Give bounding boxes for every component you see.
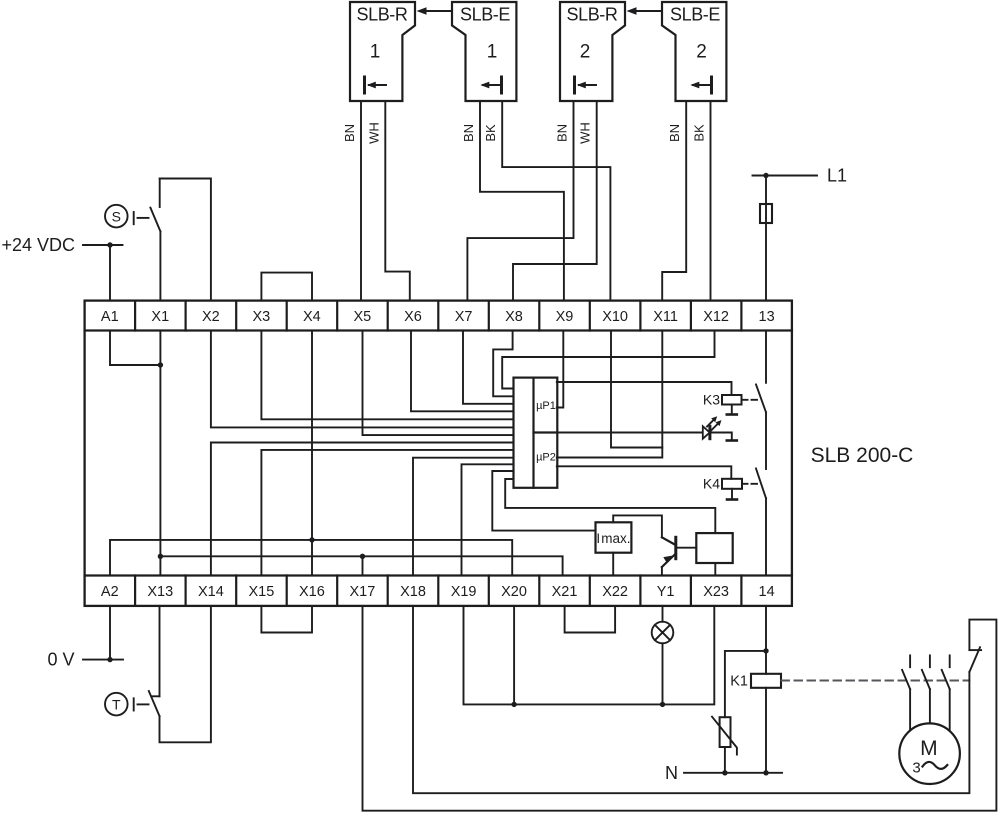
wire X9 to uP1 right pin (557, 331, 564, 408)
svg-text:X6: X6 (404, 309, 422, 325)
svg-text:X20: X20 (501, 584, 527, 600)
K4 coil common terminator (727, 489, 737, 500)
wire tap to varistor (725, 651, 766, 717)
output driver box (696, 533, 732, 563)
wire BN of SLB-R 2 to X7 (467, 101, 573, 301)
svg-text:N: N (665, 763, 678, 783)
svg-text:K4: K4 (703, 476, 720, 492)
node 0 V (47, 650, 123, 670)
svg-text:WH: WH (366, 122, 381, 144)
light exit symbol of SLB-E 1 (480, 77, 501, 93)
switch S actuator (105, 205, 149, 228)
wire L1 to fuse (765, 176, 767, 205)
wire uP2 to relay K4 coil (557, 466, 732, 479)
motor phase wires (910, 689, 950, 730)
svg-text:BN: BN (342, 124, 357, 142)
wire A2 to 0V (109, 606, 111, 660)
transistor Q1 (662, 537, 676, 567)
main block SLB 200-C outline (85, 301, 792, 606)
wire X19 to uP (462, 464, 514, 575)
contact K3 (13 to K4) (756, 331, 766, 413)
wire X14 to uP (211, 443, 514, 576)
svg-text:2: 2 (580, 42, 591, 63)
junction X4/A2 rail (309, 537, 314, 542)
K1 mechanical linkage (dashed) (782, 680, 970, 682)
svg-text:SLB-E: SLB-E (670, 5, 720, 25)
svg-text:X15: X15 (248, 584, 274, 600)
feedback loop X17 (outer) (363, 606, 997, 811)
wire X4 to X16 (311, 331, 313, 576)
svg-text:X2: X2 (202, 309, 220, 325)
junction X20/lamp rail (511, 702, 516, 707)
svg-text:X23: X23 (703, 584, 729, 600)
emitter SLB-E 1 (452, 2, 516, 101)
svg-text:X12: X12 (703, 309, 729, 325)
node L1 (753, 166, 848, 186)
K3 linkage dashes (743, 399, 757, 401)
svg-text:X11: X11 (653, 309, 678, 325)
varistor R1 (712, 717, 737, 755)
K4 linkage dashes (743, 483, 757, 485)
jumper X3-X4 above strip (261, 273, 312, 301)
svg-text:SLB-R: SLB-R (566, 5, 617, 25)
svg-text:BK: BK (483, 124, 498, 142)
LED wire from uP (557, 432, 703, 434)
wire A2 to X20 internal rail (110, 540, 512, 576)
auxiliary contact K1 (NC) in feedback (969, 647, 981, 672)
svg-text:0 V: 0 V (47, 650, 74, 670)
wire X1 down to X13/X21 rail (159, 331, 161, 557)
wire X3 to uP (261, 331, 513, 420)
contactor K1 contact phase 3 (942, 655, 950, 689)
svg-text:X19: X19 (451, 584, 477, 600)
motor M 3~ (899, 723, 960, 784)
wire fuse to terminal 13 (765, 223, 767, 301)
contactor K1 contact phase 2 (922, 655, 930, 689)
switch T actuator (105, 693, 149, 716)
svg-text:X21: X21 (552, 584, 578, 600)
junction varistor tap (763, 648, 768, 653)
wire X20 stub (513, 606, 515, 705)
receiver SLB-R 1 (350, 2, 415, 101)
wire BN of SLB-R 1 to X5 (342, 101, 361, 301)
svg-text:X17: X17 (349, 584, 375, 600)
svg-text:X14: X14 (198, 584, 224, 600)
light entry symbol of SLB-R 1 (365, 77, 387, 93)
svg-text:14: 14 (759, 584, 775, 600)
svg-text:WH: WH (578, 122, 593, 144)
wire uP to Imax left (492, 471, 595, 531)
junction A1/X1 (158, 362, 163, 367)
wire K1 coil to N (765, 688, 767, 773)
beam arrow from SLB-E 2 to SLB-R 2 (627, 7, 662, 15)
svg-text:X13: X13 (147, 584, 173, 600)
K3 coil common terminator (727, 405, 737, 415)
wire WH of SLB-R 2 to X8 (513, 101, 597, 301)
jumper X15-X16 (261, 606, 312, 633)
svg-text:X7: X7 (455, 309, 473, 325)
wire driver box to X23 (714, 563, 716, 576)
svg-text:2: 2 (696, 42, 707, 63)
wire uP1 to relay K3 coil (557, 382, 732, 395)
svg-text:T: T (112, 696, 121, 712)
svg-text:3: 3 (912, 760, 920, 777)
svg-text:I max.: I max. (596, 531, 630, 546)
svg-text:K3: K3 (703, 392, 720, 408)
wire X15 to uP (261, 450, 513, 576)
emitter SLB-E 2 (662, 2, 726, 101)
svg-text:X1: X1 (151, 309, 169, 325)
svg-text:M: M (920, 737, 938, 760)
contactor K1 contact phase 1 (902, 655, 910, 689)
svg-text:S: S (112, 208, 121, 224)
contact K4 (to 14) (756, 412, 766, 575)
wire BK of SLB-E 2 to X12 (692, 101, 711, 301)
svg-text:µP2: µP2 (536, 452, 556, 464)
wire varistor to N (724, 747, 726, 773)
receiver SLB-R 2 (560, 2, 625, 101)
wire +24VDC to A1 (109, 245, 111, 301)
wire X5 to uP (363, 331, 514, 436)
wire A1 to X1 internal (110, 331, 160, 366)
svg-text:SLB 200-C: SLB 200-C (811, 444, 914, 467)
svg-text:SLB-R: SLB-R (356, 5, 407, 25)
node N (665, 763, 782, 783)
wire X2 to uP (211, 331, 514, 428)
rail X1/X13/X17 to X21 (160, 556, 562, 575)
top terminal strip (85, 301, 792, 331)
svg-text:A1: A1 (101, 309, 119, 325)
fuse F1 (760, 204, 772, 223)
indicator lamp H1 at Y1 (652, 606, 674, 705)
bottom terminal strip (85, 576, 792, 606)
switch T contact (NC) X13 to X14 (149, 606, 211, 742)
svg-text:BN: BN (555, 124, 570, 142)
wire transistor base to driver box (676, 547, 697, 549)
svg-text:X10: X10 (602, 309, 628, 325)
wire X11 to uP2 right pin (557, 331, 663, 458)
svg-text:X4: X4 (303, 309, 321, 325)
svg-text:+24 VDC: +24 VDC (1, 235, 75, 255)
beam arrow from SLB-E 1 to SLB-R 1 (417, 7, 452, 15)
wire X10 to X11 rail (611, 331, 662, 448)
svg-text:SLB-E: SLB-E (460, 5, 510, 25)
wire X18 to uP (413, 458, 514, 576)
svg-text:X18: X18 (400, 584, 426, 600)
svg-text:L1: L1 (827, 166, 847, 186)
wire BK of SLB-E 1 to X10 (483, 101, 610, 301)
wire S loop to X2 (160, 179, 211, 301)
wire 14 to K1 coil (765, 606, 767, 674)
svg-text:BK: BK (692, 124, 707, 142)
junction lamp/rail (660, 702, 665, 707)
svg-text:Y1: Y1 (657, 584, 675, 600)
svg-text:1: 1 (370, 42, 381, 63)
wire Imax top to transistor collector (613, 515, 662, 537)
svg-text:X22: X22 (602, 584, 628, 600)
svg-text:A2: A2 (101, 584, 119, 600)
node +24 VDC supply (1, 235, 122, 255)
wire transistor emitter to Y1 (661, 567, 663, 576)
feedback loop X18 (inner) (413, 606, 969, 793)
jumper X21-X22 (565, 606, 616, 633)
svg-text:BN: BN (667, 124, 682, 142)
junction X17 rail (360, 554, 365, 559)
LED D1 (703, 416, 722, 438)
relay coil K1 (730, 674, 781, 690)
wire X8 to uP (493, 331, 513, 397)
wire BN of SLB-E 2 to X11 (662, 101, 686, 301)
wire WH of SLB-R 1 to X6 (366, 101, 410, 301)
relay coil K4 (703, 476, 742, 492)
svg-text:X8: X8 (505, 309, 523, 325)
svg-text:K1: K1 (730, 674, 748, 690)
switch S contact (NO) between X1 and loop (150, 179, 160, 301)
wire X12 to uP (502, 331, 714, 389)
current limit block Imax (596, 522, 632, 552)
wire uP to driver box top (505, 479, 715, 533)
relay coil K3 (703, 392, 742, 408)
svg-text:X3: X3 (253, 309, 271, 325)
svg-text:13: 13 (759, 309, 775, 325)
svg-text:1: 1 (487, 42, 498, 63)
svg-text:X16: X16 (299, 584, 325, 600)
junction X1/X13 rail (158, 554, 163, 559)
wire X7 to uP (463, 331, 514, 404)
wire BN of SLB-E 1 to X9 (461, 101, 564, 301)
wire Imax bottom to X22 (612, 553, 614, 576)
svg-text:µP1: µP1 (536, 400, 556, 412)
light entry symbol of SLB-R 2 (575, 77, 597, 93)
light exit symbol of SLB-E 2 (690, 77, 711, 93)
svg-text:X5: X5 (354, 309, 372, 325)
wire X13 up to rail (159, 556, 161, 575)
wire X19/X20 to lamp rail (464, 606, 715, 705)
op-amp block uP1/uP2 (514, 378, 558, 488)
wire X17 stub to rail (362, 556, 364, 575)
wire X6 to uP (411, 331, 514, 412)
wire LED to common terminator (710, 433, 737, 441)
svg-text:BN: BN (461, 124, 476, 142)
svg-text:X9: X9 (556, 309, 574, 325)
